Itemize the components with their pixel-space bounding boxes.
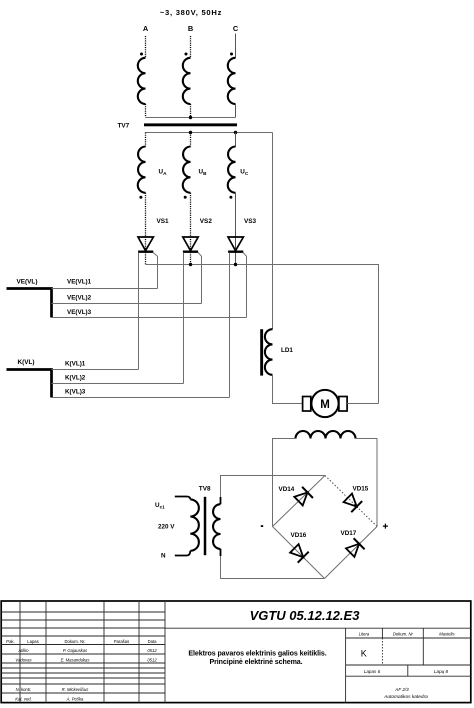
transformer TV7 primary winding phase A polarity dot — [140, 53, 143, 56]
thyristor VS2 label — [200, 218, 213, 225]
svg-text:VD17: VD17 — [341, 530, 357, 537]
bus VE(VL) label — [17, 279, 38, 286]
wire VS2 cathode sense lead — [183, 253, 185, 384]
svg-text:VE(VL)1: VE(VL)1 — [67, 279, 92, 286]
bus K(VL) cathode control — [7, 370, 52, 398]
transformer TV7 primary winding phase B — [183, 58, 191, 104]
svg-text:VS3: VS3 — [244, 218, 257, 225]
wire LD1 to motor — [273, 375, 303, 404]
title text — [188, 650, 326, 666]
svg-text:K: K — [361, 649, 367, 659]
transformer TV7 primary winding phase C polarity dot — [230, 53, 233, 56]
node C label — [233, 24, 239, 33]
node minus mark — [261, 525, 263, 527]
svg-text:Pak.: Pak. — [6, 639, 14, 644]
svg-text:Kat. ved.: Kat. ved. — [15, 697, 32, 702]
svg-text:LD1: LD1 — [281, 347, 293, 354]
wire VS3 gate lead — [243, 253, 246, 318]
wire secondary A stub (dotted) — [145, 133, 147, 147]
transformer TV7 secondary winding Ua — [138, 147, 146, 193]
wire neutral to LD1 — [272, 133, 274, 330]
diode VD15 label — [353, 486, 369, 493]
thyristor VS1 label — [157, 218, 170, 225]
title block litera texts — [359, 632, 456, 700]
supply value label ~3, 380V, 50Hz — [160, 8, 222, 17]
svg-text:Litera: Litera — [359, 632, 370, 637]
bus VE(VL) gate control — [7, 289, 52, 318]
title block grid — [1, 601, 471, 703]
wire VS3 cathode sense lead — [229, 253, 231, 398]
svg-text:~3, 380V, 50Hz: ~3, 380V, 50Hz — [160, 8, 222, 17]
diode VD16 — [289, 543, 309, 563]
diode VD17 — [345, 538, 365, 558]
svg-text:VD14: VD14 — [279, 486, 295, 493]
wire phase A drop (dotted) — [145, 36, 147, 58]
secondary winding Uc polarity dot — [229, 196, 232, 199]
wire VE(VL)1 — [52, 288, 158, 290]
title block — [1, 601, 471, 703]
transformer TV7 secondary winding Uc — [228, 147, 236, 193]
svg-text:VD16: VD16 — [291, 532, 307, 539]
value label Uc — [240, 169, 249, 177]
wire bridge edge bottom-right — [325, 527, 378, 579]
wire bridge edge left-bottom — [273, 527, 325, 579]
svg-text:VS1: VS1 — [157, 218, 170, 225]
wire K(VL)2 — [52, 383, 184, 385]
svg-text:Data: Data — [148, 639, 158, 644]
svg-text:Parašas: Parašas — [114, 639, 129, 644]
svg-text:N. kontr.: N. kontr. — [16, 687, 32, 692]
wire VS1 gate lead — [153, 253, 157, 289]
svg-text:Vadovas: Vadovas — [15, 658, 32, 663]
node A label — [143, 24, 149, 33]
svg-text:Mastelis: Mastelis — [439, 632, 455, 637]
wire secondary B stub (dotted) — [190, 133, 192, 147]
svg-text:VE(VL)2: VE(VL)2 — [67, 295, 92, 302]
junction secondary common at C — [234, 131, 237, 134]
diode VD14 — [293, 487, 313, 507]
wire common cathode bus to motor — [146, 265, 379, 404]
field winding LM — [296, 431, 356, 438]
svg-text:Principinė elektrinė schema.: Principinė elektrinė schema. — [209, 658, 302, 666]
wire secondary C stub — [235, 133, 237, 147]
diode VD17 label — [341, 530, 357, 537]
svg-text:VS2: VS2 — [200, 218, 213, 225]
wire phase B drop (dotted) — [190, 36, 192, 58]
svg-text:Automatikos katedra: Automatikos katedra — [383, 694, 428, 700]
transformer TV7 primary winding phase B polarity dot — [185, 53, 188, 56]
svg-text:220 V: 220 V — [158, 523, 175, 530]
wire secondary common (neutral) top — [146, 132, 273, 134]
svg-text:K(VL): K(VL) — [18, 359, 35, 366]
wire motor right brush to positive bus — [347, 403, 378, 405]
transformer TV8 primary winding — [175, 497, 199, 556]
document number VGTU 05.12.12.E3 — [250, 608, 361, 623]
wire field winding left lead — [273, 439, 296, 527]
title block header texts — [6, 639, 157, 702]
secondary winding Ua polarity dot — [139, 196, 142, 199]
svg-text:Lapų 8: Lapų 8 — [434, 669, 448, 674]
wire primary A to star point (dotted) — [145, 104, 147, 118]
node N label — [161, 552, 166, 559]
node B label — [188, 24, 193, 33]
thyristor VS1 — [138, 237, 153, 252]
svg-text:K(VL)1: K(VL)1 — [65, 361, 86, 368]
svg-text:C: C — [233, 24, 239, 33]
svg-text:A: A — [143, 24, 149, 33]
wire TV8 secondary bottom to bridge bottom vertex — [221, 556, 325, 579]
svg-text:P. Gajauskas: P. Gajauskas — [63, 648, 88, 653]
svg-text:0512: 0512 — [147, 648, 157, 653]
wire secondary C to VS3 anode — [235, 193, 237, 265]
transformer TV7 primary winding phase C — [228, 58, 236, 104]
junction cathode bus at VS2 — [189, 263, 192, 266]
svg-text:AF 2/3: AF 2/3 — [394, 687, 409, 692]
svg-text:TV7: TV7 — [118, 123, 130, 130]
wire K(VL)3 — [52, 397, 230, 399]
transformer TV7 secondary winding Ub — [183, 147, 191, 193]
transformer TV7 core — [144, 123, 237, 126]
transformer TV8 secondary winding — [213, 497, 220, 556]
secondary winding Ub polarity dot — [184, 196, 187, 199]
wire VS1 cathode sense lead — [138, 253, 140, 370]
svg-text:R. Mickevičius: R. Mickevičius — [62, 687, 90, 692]
wire K(VL)2 label — [65, 375, 86, 382]
thyristor VS3 label — [244, 218, 257, 225]
wire VE(VL)1 label — [67, 279, 92, 286]
svg-text:E. Masandukas: E. Masandukas — [61, 658, 91, 663]
value label Ub — [199, 169, 208, 177]
svg-text:K(VL)3: K(VL)3 — [65, 388, 86, 395]
transformer TV7 reference label — [118, 123, 130, 130]
bus K(VL) label — [18, 359, 35, 366]
wire secondary A to VS1 anode (dotted) — [145, 193, 147, 265]
junction secondary common at B — [189, 131, 192, 134]
inductor LD1 label — [281, 347, 293, 354]
svg-text:K(VL)2: K(VL)2 — [65, 375, 86, 382]
diode VD14 label — [279, 486, 295, 493]
svg-text:Atliko: Atliko — [17, 648, 29, 653]
svg-text:M: M — [320, 399, 330, 411]
transformer TV7 primary winding phase A — [138, 58, 146, 104]
wire VE(VL)3 — [52, 317, 247, 319]
node plus mark — [383, 524, 388, 529]
wire VE(VL)2 — [52, 303, 202, 305]
value label Uc1 — [155, 502, 165, 510]
wire primary C to star point — [235, 104, 237, 118]
wire phase C drop — [235, 34, 237, 58]
svg-text:N: N — [161, 552, 166, 559]
transformer TV8 core — [204, 497, 207, 555]
inductor LD1 core — [260, 329, 263, 375]
wire VS2 gate lead — [198, 253, 201, 304]
wire K(VL)3 label — [65, 388, 86, 395]
diode VD15 — [342, 492, 362, 512]
transformer TV8 label — [199, 485, 211, 492]
wire K(VL)1 label — [65, 361, 86, 368]
svg-text:A. Poška: A. Poška — [66, 697, 84, 702]
value label 220 V — [158, 523, 175, 530]
svg-text:VE(VL)3: VE(VL)3 — [67, 309, 92, 316]
junction cathode bus at VS3 — [234, 263, 237, 266]
inductor LD1 — [265, 329, 273, 375]
value label Ua — [159, 169, 168, 177]
svg-text:0512: 0512 — [147, 658, 157, 663]
wire primary star connection — [146, 117, 236, 119]
wire bridge edge top-right (dotted) — [325, 476, 377, 527]
thyristor VS2 — [183, 237, 198, 252]
svg-text:TV8: TV8 — [199, 485, 211, 492]
svg-text:VGTU 05.12.12.E3: VGTU 05.12.12.E3 — [250, 608, 361, 623]
svg-text:B: B — [188, 24, 193, 33]
wire field winding right lead — [356, 439, 378, 527]
wire TV8 secondary top to bridge top vertex — [221, 476, 326, 498]
wire VE(VL)2 label — [67, 295, 92, 302]
svg-text:Dokum. Nr.: Dokum. Nr. — [65, 639, 86, 644]
title block frame — [1, 601, 471, 703]
svg-text:VD15: VD15 — [353, 486, 369, 493]
svg-text:Lapas 6: Lapas 6 — [364, 669, 381, 674]
wire secondary B to VS2 anode (dotted) — [190, 193, 192, 265]
wire bridge edge left-top — [273, 476, 326, 527]
wire K(VL)1 — [52, 369, 139, 371]
svg-text:VE(VL): VE(VL) — [17, 279, 38, 286]
diode VD16 label — [291, 532, 307, 539]
wire primary B to star point (dotted) — [190, 104, 192, 118]
motor M armature — [303, 390, 348, 417]
wire VE(VL)3 label — [67, 309, 92, 316]
junction primary star at B — [189, 116, 192, 119]
thyristor VS3 — [228, 237, 243, 252]
svg-text:Lapas: Lapas — [27, 639, 38, 644]
svg-text:Elektros pavaros elektrinis ga: Elektros pavaros elektrinis galios keiti… — [188, 650, 326, 658]
svg-text:Dokum. Nr: Dokum. Nr — [393, 632, 414, 637]
